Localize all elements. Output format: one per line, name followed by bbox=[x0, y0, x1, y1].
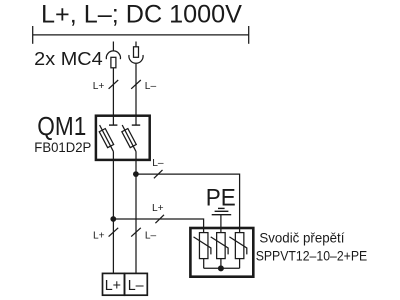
svg-text:L+, L–; DC 1000V: L+, L–; DC 1000V bbox=[41, 0, 242, 28]
svg-text:L+: L+ bbox=[93, 81, 105, 92]
wire L- (connector X2 to QM1 contact) bbox=[135, 64, 137, 125]
conductor mark on L- terminal wire bbox=[131, 228, 141, 237]
svg-text:2x MC4: 2x MC4 bbox=[34, 48, 103, 69]
svg-text:L+: L+ bbox=[93, 231, 105, 242]
wire L- (node B to terminal) bbox=[135, 174, 137, 273]
svg-text:SPPVT12–10–2+PE: SPPVT12–10–2+PE bbox=[256, 247, 368, 263]
enclosure QM1 (fuse switch disconnector box) bbox=[96, 116, 150, 160]
fuse switch QM1 pole 2 (contact bar, blade, fuse body) bbox=[122, 125, 140, 151]
wire L+ branch (node A to surge arrester FV1) bbox=[113, 219, 203, 233]
wire L- branch (node B to surge arrester FV3) bbox=[136, 174, 240, 233]
wire L+ (QM1 to node A) bbox=[112, 151, 114, 219]
svg-text:QM1: QM1 bbox=[37, 113, 86, 141]
conductor mark on L+ terminal wire bbox=[109, 228, 119, 237]
earth symbol (inverted, stem down) bbox=[212, 208, 232, 232]
svg-text:L–: L– bbox=[128, 278, 144, 294]
terminal block L- bbox=[125, 273, 148, 295]
svg-text:L–: L– bbox=[145, 81, 157, 92]
enclosure surge protector box bbox=[190, 228, 253, 277]
svg-text:PE: PE bbox=[206, 184, 236, 211]
svg-text:FB01D2P: FB01D2P bbox=[34, 139, 91, 155]
varistor FV2 (PE arrester, middle) bbox=[211, 233, 228, 269]
wire L+ (connector X1 to QM1 contact) bbox=[112, 68, 114, 125]
varistor FV3 (L- arrester) bbox=[229, 233, 246, 269]
node B junction dot bbox=[133, 171, 139, 177]
wire L+ (node A to terminal) bbox=[112, 219, 114, 273]
svg-text:L+: L+ bbox=[105, 278, 121, 294]
varistor FV1 (L+ arrester) bbox=[194, 233, 211, 269]
conductor mark on L- wire bbox=[131, 80, 141, 89]
dimension bracket bbox=[33, 26, 249, 44]
conductor mark on L- branch bbox=[154, 170, 163, 178]
svg-text:Svodič přepětí: Svodič přepětí bbox=[259, 231, 344, 246]
svg-text:L+: L+ bbox=[152, 203, 164, 214]
connector X1 (MC4 pair, L+ pole) bbox=[106, 42, 120, 68]
node A junction dot bbox=[110, 216, 116, 222]
svg-text:L–: L– bbox=[145, 231, 157, 242]
PE bus wire inside surge box bbox=[204, 267, 240, 269]
wire L- (QM1 to node B) bbox=[135, 151, 137, 174]
conductor mark on L+ wire bbox=[109, 80, 119, 89]
conductor mark on L+ branch bbox=[155, 215, 164, 223]
connector X2 (MC4 pair, L- pole) bbox=[129, 42, 143, 64]
PE bus junction dot bbox=[218, 265, 224, 271]
terminal block L+ bbox=[103, 273, 125, 295]
svg-text:L–: L– bbox=[152, 158, 164, 169]
fuse switch QM1 pole 1 (contact bar, blade, fuse body) bbox=[99, 125, 117, 151]
